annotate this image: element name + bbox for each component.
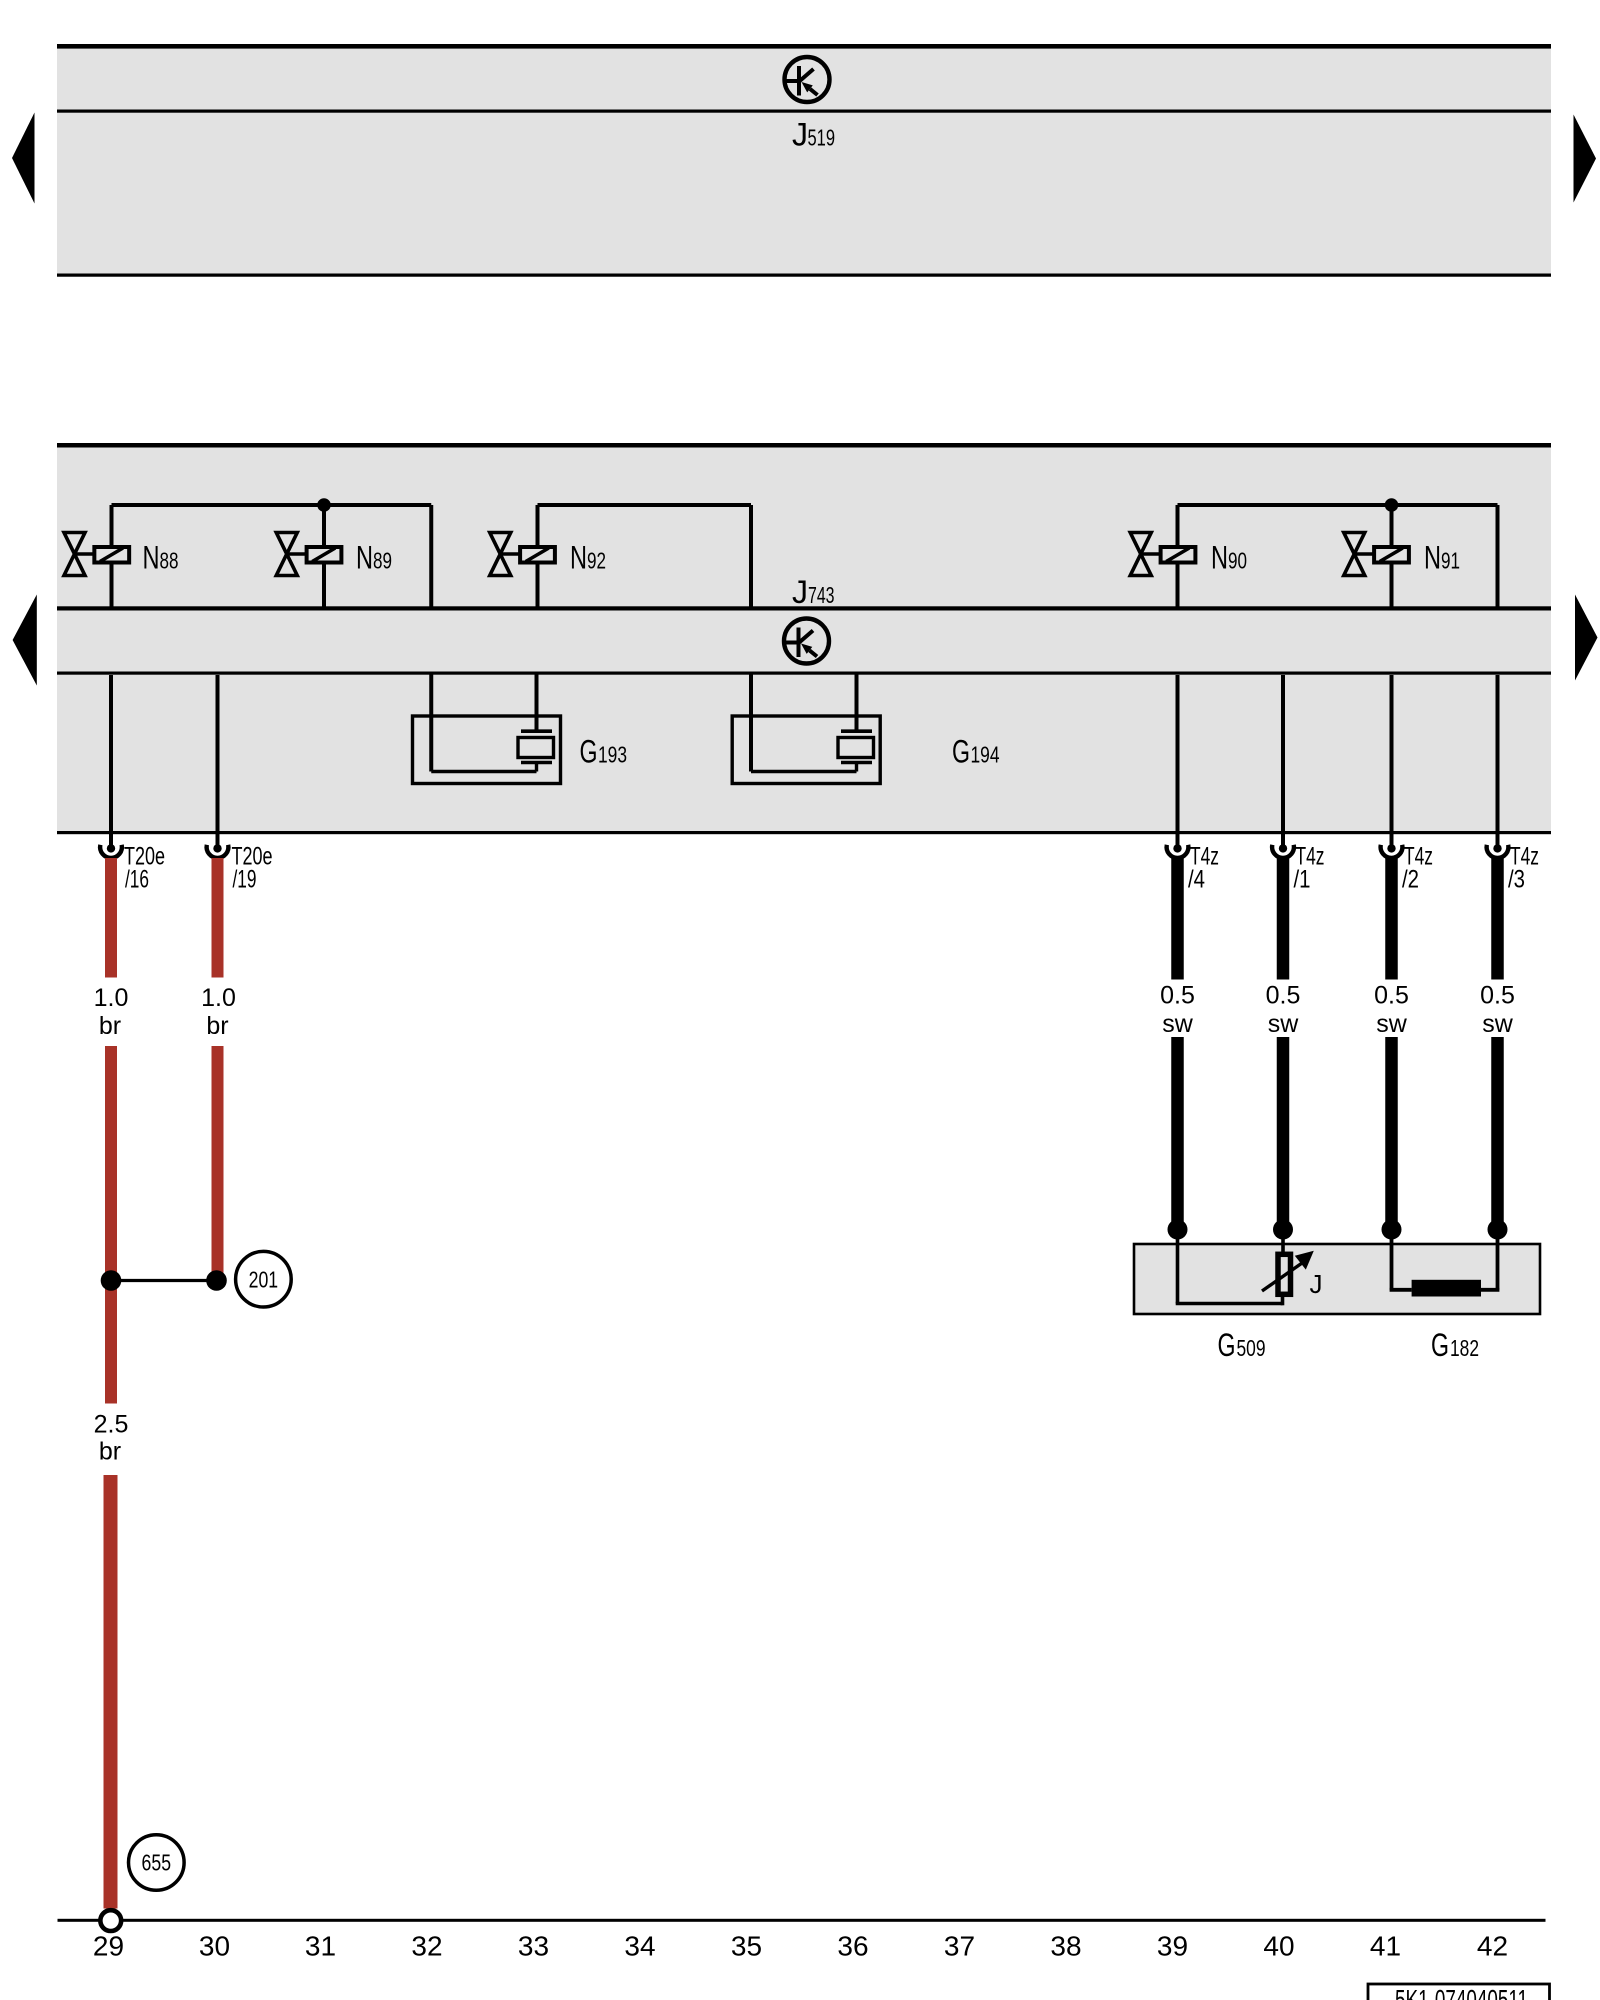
svg-text:G: G (580, 734, 598, 770)
wire end node G509 pin 2 (1273, 1220, 1293, 1240)
valve N88 (64, 533, 129, 576)
svg-text:N: N (143, 540, 160, 576)
svg-text:/3: /3 (1508, 866, 1525, 894)
svg-text:2.5: 2.5 (94, 1411, 129, 1439)
label J519 (792, 117, 835, 153)
continuation arrow right (top band) (1574, 115, 1597, 203)
svg-text:G: G (1218, 1327, 1236, 1363)
svg-text:sw: sw (1162, 1010, 1194, 1038)
node designator 201 (236, 1251, 292, 1307)
svg-text:J: J (792, 117, 808, 153)
wire T4z/1 drop inside J743 (1281, 675, 1285, 831)
svg-text:38: 38 (1050, 1931, 1081, 1962)
connector terminal T4z/4 (1167, 829, 1189, 858)
variable resistor J of G509 (1262, 1251, 1323, 1299)
bus connection symbol K in J743 (784, 619, 829, 664)
svg-text:91: 91 (1441, 548, 1460, 574)
svg-text:G: G (952, 734, 970, 770)
svg-text:/1: /1 (1294, 866, 1311, 894)
svg-text:br: br (99, 1438, 121, 1466)
wire T4z/2 drop inside J743 (1390, 675, 1394, 831)
control unit J519 body (57, 44, 1551, 277)
valve N91 (1344, 533, 1409, 576)
connector terminal T20e/16 (100, 829, 122, 858)
svg-text:182: 182 (1450, 1335, 1479, 1361)
ground rail (58, 1919, 1546, 1922)
control unit J743 body (57, 443, 1551, 834)
svg-text:0.5: 0.5 (1266, 982, 1301, 1010)
ground designator 655 (129, 1835, 185, 1891)
svg-text:509: 509 (1237, 1335, 1266, 1361)
svg-text:/4: /4 (1188, 866, 1205, 894)
junction node (left) (101, 1270, 122, 1291)
svg-text:5K1-074040511: 5K1-074040511 (1395, 1984, 1528, 2000)
wire black sw from T4z/1 (upper segment) (1277, 858, 1290, 980)
svg-text:35: 35 (731, 1931, 762, 1962)
svg-text:88: 88 (160, 548, 179, 574)
wire T20e/16 drop inside J743 (109, 675, 113, 831)
continuation arrow left (J743 band) (13, 595, 37, 686)
wire link between junctions (111, 1279, 217, 1282)
svg-text:1.0: 1.0 (94, 984, 129, 1012)
svg-text:1.0: 1.0 (201, 984, 236, 1012)
continuation arrow left (top band) (12, 113, 35, 204)
wire black sw from T4z/2 (lower segment) (1385, 1037, 1398, 1229)
svg-text:33: 33 (518, 1931, 549, 1962)
svg-text:0.5: 0.5 (1374, 982, 1409, 1010)
sensor G509 internal wiring (1176, 1229, 1283, 1305)
svg-text:/2: /2 (1402, 866, 1419, 894)
svg-text:40: 40 (1263, 1931, 1294, 1962)
svg-text:30: 30 (199, 1931, 230, 1962)
wire N90/N91 parallel branch (1178, 505, 1498, 608)
svg-text:42: 42 (1477, 1931, 1508, 1962)
svg-text:92: 92 (587, 548, 606, 574)
current track numbers 29-42 (93, 1931, 1508, 1962)
svg-text:193: 193 (598, 742, 627, 768)
wire red br from T20e/16 (lower segment) (105, 1046, 117, 1404)
svg-text:/19: /19 (233, 866, 257, 894)
wire red br from T20e/19 (lower segment) (212, 1046, 224, 1281)
continuation arrow right (J743 band) (1575, 595, 1598, 681)
wire red br 2.5 (ground segment) (104, 1475, 118, 1909)
svg-text:655: 655 (142, 1850, 172, 1876)
label J743 (792, 574, 835, 610)
wire T4z/4 drop inside J743 (1176, 675, 1180, 831)
sensor G194 (732, 674, 880, 784)
svg-text:br: br (99, 1012, 121, 1040)
svg-text:0.5: 0.5 (1160, 982, 1195, 1010)
svg-text:/16: /16 (125, 866, 149, 894)
valve N92 (490, 533, 555, 576)
diagram id box (1368, 1984, 1550, 2000)
wire red br from T20e/19 (upper segment) (212, 858, 224, 978)
connector terminal T20e/19 (207, 829, 229, 858)
wire T4z/3 drop inside J743 (1496, 675, 1500, 831)
wire N88/N89 parallel branch (112, 505, 432, 608)
svg-text:N: N (356, 540, 373, 576)
svg-text:39: 39 (1157, 1931, 1188, 1962)
wire end node G182 pin 1 (1382, 1220, 1402, 1240)
svg-text:N: N (1424, 540, 1441, 576)
wire end node G182 pin 2 (1488, 1220, 1508, 1240)
svg-text:41: 41 (1370, 1931, 1401, 1962)
svg-text:519: 519 (808, 125, 836, 151)
wire black sw from T4z/3 (lower segment) (1491, 1037, 1504, 1229)
connector terminal T4z/2 (1381, 829, 1403, 858)
svg-text:31: 31 (305, 1931, 336, 1962)
svg-text:89: 89 (373, 548, 392, 574)
wire N92 branch (538, 505, 752, 608)
sensor housing G509/G182 (1134, 1244, 1540, 1314)
wire black sw from T4z/4 (upper segment) (1171, 858, 1184, 980)
svg-text:G: G (1431, 1327, 1449, 1363)
ground terminal (open circle) (100, 1910, 121, 1931)
svg-text:201: 201 (249, 1266, 279, 1292)
wire black sw from T4z/2 (upper segment) (1385, 858, 1398, 980)
svg-text:0.5: 0.5 (1480, 982, 1515, 1010)
junction node on N89 branch (317, 498, 331, 512)
svg-text:N: N (1211, 540, 1228, 576)
resistor element G182 (1412, 1280, 1481, 1297)
connector terminal T4z/3 (1487, 829, 1509, 858)
wire black sw from T4z/4 (lower segment) (1171, 1037, 1184, 1229)
connector terminal T4z/1 (1272, 829, 1294, 858)
svg-text:194: 194 (971, 742, 1000, 768)
bus connection symbol K in J519 (785, 57, 830, 102)
wire black sw from T4z/3 (upper segment) (1491, 858, 1504, 980)
svg-text:32: 32 (411, 1931, 442, 1962)
valve N90 (1130, 533, 1195, 576)
svg-text:J: J (792, 574, 808, 610)
wire red br from T20e/16 (upper segment) (105, 858, 117, 978)
svg-text:br: br (206, 1012, 228, 1040)
svg-text:sw: sw (1376, 1010, 1408, 1038)
svg-text:N: N (570, 540, 587, 576)
svg-text:37: 37 (944, 1931, 975, 1962)
sensor G182 internal wiring (1390, 1229, 1500, 1290)
svg-text:29: 29 (93, 1931, 124, 1962)
svg-text:90: 90 (1228, 548, 1247, 574)
svg-text:34: 34 (624, 1931, 655, 1962)
sensor G193 (413, 674, 561, 784)
wire T20e/19 drop inside J743 (216, 675, 220, 831)
junction node (right) (206, 1270, 227, 1291)
svg-text:sw: sw (1268, 1010, 1300, 1038)
svg-text:J: J (1310, 1269, 1323, 1299)
svg-text:sw: sw (1482, 1010, 1514, 1038)
wire end node G509 pin 1 (1168, 1220, 1188, 1240)
wire black sw from T4z/1 (lower segment) (1277, 1037, 1290, 1229)
junction node on N91 branch (1385, 498, 1399, 512)
valve N89 (276, 533, 341, 576)
svg-text:743: 743 (808, 582, 835, 608)
svg-text:36: 36 (837, 1931, 868, 1962)
